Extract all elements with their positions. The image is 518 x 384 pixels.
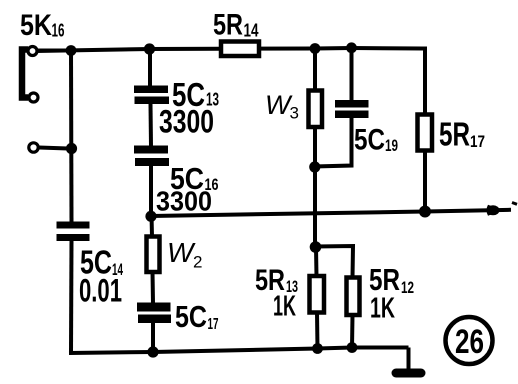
svg-text:3300: 3300 [156, 186, 212, 217]
junction node A (switch top) [66, 45, 77, 56]
svg-text:5R: 5R [439, 116, 470, 153]
label 5R14 [213, 9, 259, 42]
wire W3 bottom / crossing vertical [313, 127, 317, 248]
wire between C13 and C16 [149, 104, 154, 146]
junction node E (C16/W2 on output bus) [145, 211, 156, 222]
rheostat W2 [147, 237, 160, 273]
wire C17 to bottom bus [151, 323, 155, 354]
svg-text:1K: 1K [370, 293, 395, 325]
wire mid bus to W2 [150, 215, 155, 237]
svg-text:17: 17 [470, 132, 485, 151]
svg-text:1K: 1K [273, 291, 296, 323]
rheostat W3 [309, 91, 323, 128]
wire ground stem [407, 348, 411, 372]
wire R13 top [314, 247, 319, 277]
wire R13 bottom [315, 313, 320, 350]
wire C13-C16 column upper [148, 47, 152, 86]
label 5R17 [439, 116, 485, 153]
svg-text:14: 14 [244, 21, 259, 41]
capacitor 5C16 [134, 146, 169, 167]
capacitor 5C13 [134, 86, 169, 105]
wire R17 bottom [423, 150, 427, 212]
wire R12 bottom [350, 315, 355, 348]
junction node B (W3 top) [310, 43, 321, 54]
wire C19 top [350, 47, 354, 101]
output arrowhead [487, 205, 503, 216]
junction node J (C13 top) [144, 43, 155, 54]
wire R12 elbow from node [315, 246, 354, 278]
label 5C13 [172, 76, 219, 113]
label 5C16 [170, 161, 219, 196]
svg-text:26: 26 [455, 323, 484, 361]
junction node L (R13/R12 top) [310, 241, 322, 253]
capacitor 5C19 [335, 100, 369, 118]
svg-text:19: 19 [385, 136, 398, 155]
label W2 [167, 237, 202, 272]
svg-text:5R: 5R [213, 9, 243, 42]
junction node G (C17 bottom bus) [147, 346, 158, 357]
svg-text:16: 16 [52, 21, 65, 41]
wire C16 to mid bus [149, 166, 153, 217]
wire top bus [36, 48, 423, 51]
wire bottom bus [69, 348, 409, 354]
svg-text:12: 12 [401, 278, 414, 297]
svg-text:3300: 3300 [159, 104, 214, 140]
wire middle output bus [151, 210, 511, 216]
svg-text:5C: 5C [354, 124, 385, 157]
capacitor 5C14 [57, 222, 90, 242]
label W3 [265, 90, 299, 123]
resistor 5R17 [418, 115, 433, 151]
label 5R13 [255, 264, 298, 297]
label 5C19 [354, 124, 398, 157]
ground [392, 369, 426, 378]
resistor 5R14 [221, 42, 259, 57]
svg-text:0.01: 0.01 [79, 273, 122, 309]
resistor 5R13 [310, 276, 325, 313]
wire C19 bottom elbow [314, 117, 352, 167]
label 5C17 [175, 299, 219, 334]
junction node I (R12 bottom bus) [347, 342, 358, 353]
wire left vertical lower [69, 241, 74, 354]
wire W2 to C17 [151, 272, 156, 304]
label 5R12 [369, 262, 414, 297]
svg-text:3: 3 [290, 104, 299, 123]
junction node F (switch lower contact) [66, 143, 77, 154]
svg-text:5K: 5K [20, 9, 52, 42]
junction node C (C19 top) [346, 42, 357, 53]
svg-text:17: 17 [208, 316, 219, 333]
figure number 26 [446, 317, 493, 364]
resistor 5R12 [347, 278, 360, 316]
wire left vertical upper [69, 49, 74, 222]
junction node K (W3/C19 bottom) [309, 161, 320, 172]
wire right vertical to R17 [423, 47, 427, 117]
svg-text:5C: 5C [175, 299, 207, 334]
svg-text:2: 2 [193, 253, 202, 272]
label 5C14 [80, 244, 123, 281]
junction node H (R13 bottom bus) [312, 343, 323, 354]
capacitor 5C17 [137, 303, 171, 324]
svg-text:W: W [167, 237, 196, 268]
wire W3 top [313, 47, 317, 91]
label 5K16 [20, 9, 65, 42]
junction node D (R17 bottom on output bus) [419, 206, 431, 218]
switch 5K16 [22, 47, 68, 153]
